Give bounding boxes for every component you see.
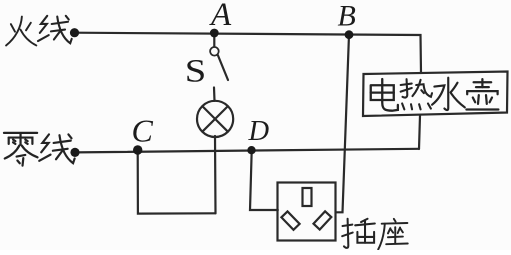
wire live top — [75, 33, 422, 73]
label socket 座 — [378, 219, 407, 250]
wire C loop — [138, 151, 216, 214]
kettle box — [363, 72, 508, 117]
label huoxian 线 — [38, 16, 72, 43]
socket slot earth — [303, 188, 312, 206]
label kettle 水 — [432, 78, 465, 110]
switch S blade — [218, 55, 228, 80]
node C — [133, 145, 142, 154]
svg-text:S: S — [185, 52, 206, 89]
label kettle 热 — [401, 79, 432, 109]
node B — [345, 30, 354, 39]
svg-text:C: C — [132, 113, 154, 149]
wire B down to socket right — [336, 35, 349, 213]
label lingxian 线 — [39, 134, 74, 163]
socket box — [278, 183, 336, 241]
socket slot left — [281, 211, 299, 229]
svg-text:D: D — [248, 116, 270, 147]
label lingxian 零 — [4, 133, 38, 166]
node A — [210, 29, 219, 38]
terminal neutral — [70, 148, 79, 157]
svg-text:B: B — [338, 0, 356, 33]
wire lamp bottom lead — [214, 136, 217, 213]
wire neutral — [75, 149, 419, 153]
label kettle 壶 — [466, 79, 498, 109]
svg-text:A: A — [209, 0, 232, 33]
node D — [247, 146, 255, 154]
terminal live — [70, 28, 79, 37]
label huoxian 火 — [6, 17, 36, 46]
wire kettle to neutral — [419, 116, 420, 150]
wire lamp top lead — [213, 88, 216, 101]
switch S circle — [210, 47, 219, 56]
wire switch stub from A — [213, 33, 215, 47]
socket slot right — [313, 211, 331, 229]
label kettle 电 — [371, 79, 398, 111]
label socket 插 — [342, 219, 375, 248]
lamp L circle — [197, 101, 233, 137]
wire D to socket left — [250, 151, 278, 211]
